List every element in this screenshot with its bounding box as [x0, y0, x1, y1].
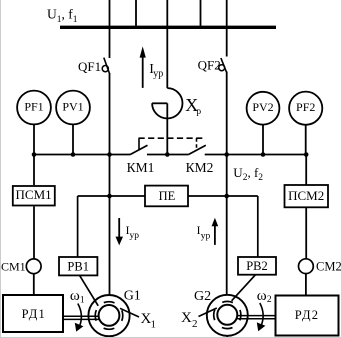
svg-text:ω: ω: [70, 288, 80, 304]
svg-text:2: 2: [192, 318, 198, 330]
svg-text:1: 1: [151, 318, 157, 330]
svg-text:РД2: РД2: [295, 308, 319, 322]
svg-text:PV2: PV2: [252, 100, 273, 114]
svg-text:ω: ω: [257, 288, 267, 304]
svg-text:СМ1: СМ1: [1, 260, 26, 274]
svg-text:КМ2: КМ2: [186, 160, 214, 175]
svg-text:PV1: PV1: [62, 100, 83, 114]
svg-text:G1: G1: [124, 289, 141, 304]
svg-text:2: 2: [267, 295, 272, 305]
svg-text:р: р: [196, 107, 201, 117]
svg-text:PF1: PF1: [24, 100, 43, 114]
svg-text:ур: ур: [130, 231, 140, 241]
svg-text:РД1: РД1: [22, 307, 46, 321]
svg-text:QF1: QF1: [78, 59, 101, 74]
svg-text:ур: ур: [153, 68, 163, 79]
svg-text:PF2: PF2: [296, 100, 315, 114]
svg-text:ур: ур: [201, 231, 211, 241]
svg-text:СМ2: СМ2: [316, 260, 341, 274]
svg-text:QF2: QF2: [198, 58, 221, 73]
svg-text:X: X: [181, 310, 192, 326]
svg-text:КМ1: КМ1: [127, 160, 155, 175]
svg-text:ПСМ2: ПСМ2: [288, 188, 324, 203]
svg-text:ПСМ1: ПСМ1: [16, 187, 52, 202]
svg-text:1: 1: [80, 296, 85, 306]
svg-text:РВ1: РВ1: [67, 259, 89, 273]
svg-text:РВ2: РВ2: [246, 259, 268, 273]
svg-text:G2: G2: [194, 289, 211, 304]
svg-text:ПЕ: ПЕ: [159, 189, 176, 203]
